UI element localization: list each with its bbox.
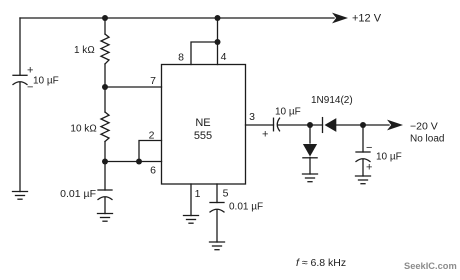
svg-text:8: 8 [178,52,184,64]
ground under C3 [210,242,225,250]
node junction dot top pin4 [215,15,221,21]
svg-text:0.01 µF: 0.01 µF [229,202,263,213]
node junction dot B [360,122,366,128]
wire pin5 [216,184,218,203]
svg-text:4: 4 [221,51,227,63]
wire C4 to node A [278,124,323,126]
svg-text:No load: No load [410,133,444,144]
node junction dot pin2 branch [136,159,142,165]
node output arrow [387,120,403,131]
diode D2 1N914 shunt [303,144,317,158]
wire C3 to ground [216,210,218,242]
wire pin4 [217,18,219,65]
svg-text:2: 2 [149,129,155,141]
svg-text:555: 555 [194,130,212,142]
svg-text:+: + [366,162,372,174]
svg-text:−: − [366,142,372,154]
svg-text:1N914(2): 1N914(2) [311,95,353,106]
diode D1 1N914 series [323,118,337,133]
wire D1 to node B [336,124,389,126]
wire pin1 [190,184,192,216]
svg-text:−20 V: −20 V [410,120,438,132]
svg-text:5: 5 [223,187,229,199]
svg-text:0.01 µF: 0.01 µF [60,188,96,200]
ground pin1 [184,216,199,224]
svg-text:f ≈ 6.8 kHz: f ≈ 6.8 kHz [296,257,346,269]
wire filter branch [362,125,364,152]
svg-text:NE: NE [195,117,210,129]
ground under C2 [98,214,113,222]
node junction dot top R1 [102,15,108,21]
wire to C2 [104,162,106,191]
svg-text:10 µF: 10 µF [376,152,402,163]
svg-text:10 kΩ: 10 kΩ [70,124,97,135]
capacitor C2 0.01uF [98,190,112,200]
svg-text:1 kΩ: 1 kΩ [74,45,95,56]
ground under C5 [356,176,371,184]
node junction dot R2 bottom [102,159,108,165]
svg-text:SeekIC.com: SeekIC.com [404,261,457,271]
wire C5 to ground [362,160,364,177]
capacitor C4 10uF coupling [274,118,280,131]
svg-text:10 µF: 10 µF [275,107,301,118]
wire pin7 [105,86,162,88]
wire top supply rail [20,17,334,19]
resistor R2 10k [101,87,109,162]
wire pin2 [139,141,162,162]
ground left [13,192,28,200]
wire pin3 [246,124,274,126]
wire shunt branch [309,125,311,143]
svg-text:+12 V: +12 V [352,13,382,25]
capacitor C3 0.01uF [210,203,224,213]
wire C2 to ground [104,198,106,214]
node supply arrow +12V [332,13,348,24]
svg-text:3: 3 [249,111,255,123]
node junction dot pin7 [102,84,108,90]
wire D2 to ground [309,158,311,175]
op-amp U1 NE555 box [162,65,246,185]
wire pin8 [191,42,218,65]
svg-text:10 µF: 10 µF [33,76,59,87]
svg-text:7: 7 [150,75,156,87]
svg-text:1: 1 [195,188,201,200]
node junction dot pin8/4 [215,39,221,45]
wire left rail upper [19,18,21,75]
ground under D2 [303,174,318,182]
svg-text:+: + [262,129,268,141]
resistor R1 1k [101,18,109,87]
svg-text:6: 6 [150,165,156,177]
wire left rail lower [19,83,21,192]
capacitor C5 10uF filter [356,152,370,162]
capacitor C1 10uF [13,75,27,84]
wire pin6 [105,161,162,163]
node junction dot A [307,122,313,128]
